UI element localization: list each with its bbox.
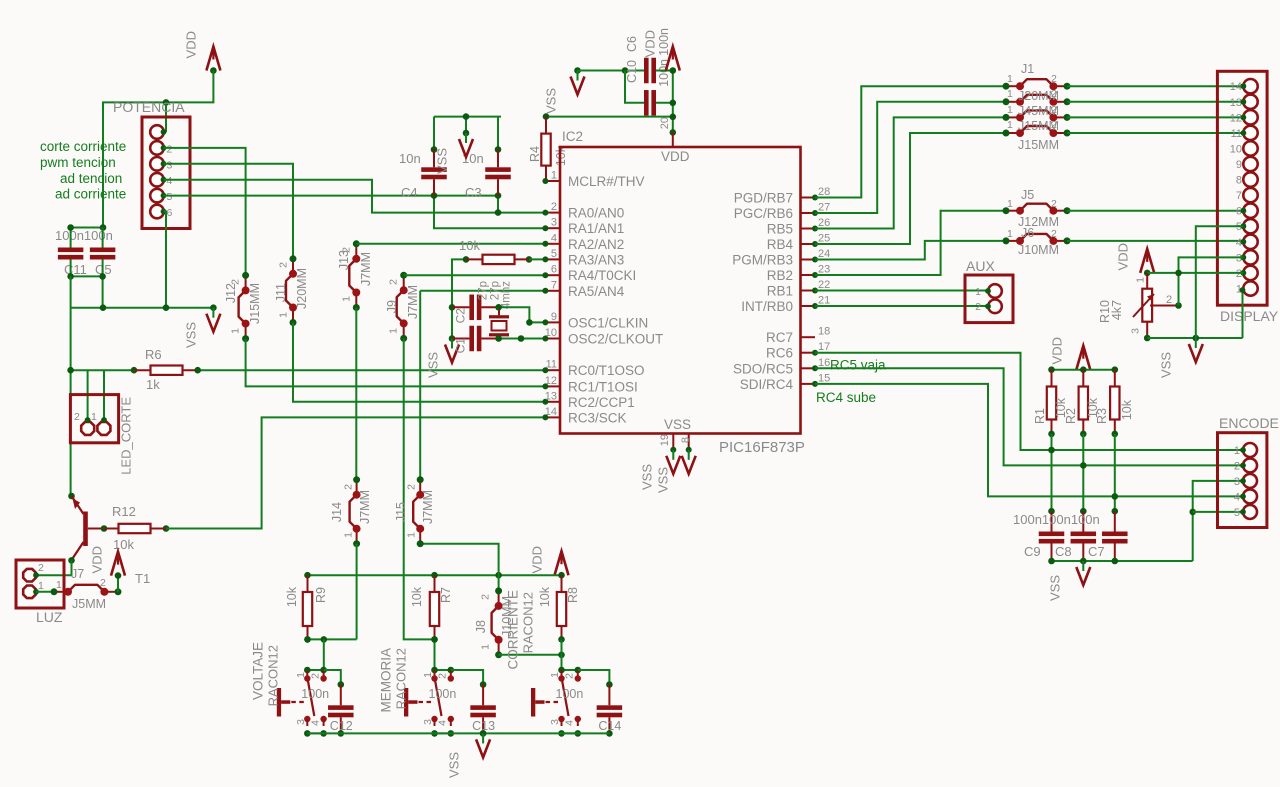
svg-text:6: 6 [551, 264, 557, 276]
wire VSS to C10 [578, 70, 645, 72]
wire R6 to RC0/T1OSO (pin11) [198, 369, 546, 371]
svg-text:1: 1 [295, 672, 307, 678]
svg-text:2: 2 [1051, 104, 1057, 116]
wire POTENCIA pin3 to J11 [164, 164, 294, 259]
wire POTENCIA pin2 to J12 [164, 148, 246, 276]
svg-text:1: 1 [388, 328, 400, 334]
svg-text:2: 2 [1051, 198, 1057, 210]
wire gnd up to ENCODER pin3/pin5 [1193, 481, 1243, 561]
wire J13 down to J14 [355, 308, 357, 480]
svg-text:VSS: VSS [639, 464, 654, 490]
svg-text:100n: 100n [301, 687, 329, 701]
svg-text:10k: 10k [1120, 399, 1134, 420]
svg-text:1: 1 [230, 328, 242, 334]
svg-text:25: 25 [818, 233, 830, 245]
wire C3 bottom to RA0 row [497, 196, 499, 213]
IC IC2 PIC16F873P microcontroller [560, 147, 801, 434]
svg-text:VSS: VSS [183, 322, 198, 348]
wire RA5 (pin7) to J15 [420, 290, 545, 292]
jumper J9 J7MM [403, 275, 405, 290]
svg-text:17: 17 [818, 341, 830, 353]
wire R10 pin3 / VSS to DISPLAY pin1 [1144, 335, 1151, 342]
pin 20 VDD [672, 132, 674, 147]
svg-text:1: 1 [278, 312, 290, 318]
power VDD symbol (R10) [1140, 249, 1154, 273]
pin 27 PGC/RB6 [801, 212, 816, 214]
wire RB4 (pin25) to J4 [815, 133, 1006, 244]
svg-text:6: 6 [167, 207, 173, 219]
svg-text:C10: C10 [625, 60, 639, 83]
svg-text:R7: R7 [439, 587, 453, 603]
svg-text:1k: 1k [146, 377, 160, 392]
wire VSS bus (left) [71, 307, 214, 309]
svg-text:10k: 10k [538, 586, 552, 607]
svg-text:PGC/RB6: PGC/RB6 [734, 206, 793, 221]
svg-text:J15: J15 [394, 502, 408, 522]
svg-text:RB1: RB1 [767, 284, 793, 299]
wire 10k to RA3 (pin5) [529, 258, 545, 260]
wire RB2 (pin23) to J5 [815, 211, 1006, 275]
svg-text:100n100n100n: 100n100n100n [1013, 512, 1100, 527]
svg-text:2: 2 [341, 247, 353, 253]
capacitor C10 100n [644, 58, 649, 84]
svg-text:7: 7 [551, 279, 557, 291]
power VSS symbol (left bus) [212, 308, 214, 318]
capacitor C14 100n [578, 670, 610, 685]
switch CORRIENTE RACON12 [562, 669, 578, 671]
node C4 bottom junction [431, 192, 438, 199]
wire RB5 (pin26) to J3 [815, 117, 1006, 228]
svg-text:4mhz: 4mhz [500, 281, 512, 309]
wire rail to switch pins [323, 639, 325, 670]
svg-text:IC2: IC2 [562, 129, 583, 144]
svg-text:10k: 10k [459, 238, 480, 253]
svg-text:7: 7 [1236, 190, 1242, 202]
svg-text:8: 8 [680, 437, 692, 443]
svg-text:14: 14 [1230, 81, 1242, 93]
svg-text:SDI/RC4: SDI/RC4 [740, 377, 794, 392]
wire J15 bottom to J8 [420, 544, 498, 591]
svg-text:J14: J14 [330, 502, 344, 522]
svg-text:J12: J12 [224, 283, 238, 303]
power VSS symbol (caps) [1082, 561, 1084, 571]
wire CORRIENTE rail to switch pins [561, 639, 563, 670]
wire C11/C5 bottoms to VSS bus [71, 260, 103, 308]
svg-text:VDD: VDD [183, 31, 198, 58]
svg-text:1: 1 [1007, 119, 1013, 131]
svg-text:3: 3 [167, 159, 173, 171]
svg-text:2: 2 [343, 484, 355, 490]
jumper J3 J15MM [1006, 116, 1020, 118]
svg-text:AUX: AUX [966, 258, 995, 274]
svg-text:R4: R4 [528, 146, 542, 162]
svg-text:24: 24 [818, 248, 830, 260]
wire PGD/RB7 (pin28) to J1 [815, 86, 1006, 197]
svg-text:1: 1 [341, 296, 353, 302]
svg-text:C9: C9 [1024, 544, 1041, 559]
svg-text:4: 4 [437, 720, 449, 726]
transistor T1 [68, 493, 75, 500]
svg-text:2: 2 [1051, 73, 1057, 85]
connector LED_CORTE [87, 370, 89, 420]
svg-text:MCLR#/THV: MCLR#/THV [568, 174, 645, 189]
jumper J2 J20MM [1006, 101, 1020, 103]
pin 14 RC3/SCK [545, 416, 560, 418]
svg-text:1: 1 [38, 580, 44, 592]
capacitor C2 27p [452, 306, 499, 308]
jumper J13 J7MM [355, 244, 357, 259]
svg-text:J7MM: J7MM [421, 490, 435, 524]
svg-text:R9: R9 [314, 587, 328, 603]
svg-text:2: 2 [278, 262, 290, 268]
svg-text:1: 1 [975, 286, 981, 298]
svg-text:3: 3 [551, 217, 557, 229]
svg-text:14: 14 [545, 406, 557, 418]
svg-text:RA4/T0CKI: RA4/T0CKI [568, 268, 636, 283]
jumper J4 J15MM [1006, 132, 1020, 134]
svg-text:J5: J5 [1021, 188, 1034, 202]
jumper J12 J15MM [245, 275, 247, 290]
pin 19 VSS [672, 434, 674, 450]
svg-text:R3: R3 [1095, 408, 1109, 424]
svg-text:ad tencion: ad tencion [60, 171, 122, 186]
svg-text:C8: C8 [1055, 544, 1072, 559]
svg-text:C3: C3 [465, 185, 482, 200]
wire POTENCIA pin6 down to VSS bus [164, 212, 167, 308]
wire J7 to VDD [117, 576, 119, 592]
svg-text:10: 10 [1230, 143, 1242, 155]
svg-text:VOLTAJE: VOLTAJE [251, 642, 266, 700]
svg-text:10n: 10n [399, 151, 421, 166]
svg-text:19: 19 [659, 434, 671, 446]
svg-text:2: 2 [100, 577, 106, 589]
jumper J5 J12MM [1006, 210, 1020, 212]
resistor R8 10k [561, 575, 563, 639]
wire OSC2 (pin10) [499, 338, 546, 340]
svg-text:T1: T1 [135, 571, 150, 586]
svg-text:8: 8 [1236, 175, 1242, 187]
power VSS symbol (display) [1195, 338, 1197, 348]
wire VDD rail [1052, 369, 1115, 371]
svg-text:INT/RB0: INT/RB0 [741, 299, 793, 314]
power VDD symbol (LUZ) [111, 552, 125, 576]
wire J2 to DISPLAY pin13 [1067, 101, 1243, 103]
svg-text:J7MM: J7MM [358, 490, 372, 524]
capacitor C8 100n [1071, 532, 1097, 537]
svg-text:RA2/AN2: RA2/AN2 [568, 237, 624, 252]
svg-text:2: 2 [38, 562, 44, 574]
svg-text:4: 4 [564, 720, 576, 726]
wire INT/RB0 (pin21) to AUX pin2 [815, 305, 988, 307]
potentiometer R10 4k7 [1146, 273, 1148, 336]
svg-text:J15MM: J15MM [248, 283, 262, 324]
svg-text:RB2: RB2 [767, 268, 793, 283]
pin 21 INT/RB0 [801, 305, 816, 307]
svg-text:SDO/RC5: SDO/RC5 [733, 361, 793, 376]
wire switches bottom VSS rail [307, 732, 609, 734]
svg-text:2: 2 [309, 673, 321, 679]
svg-text:MEMORIA: MEMORIA [379, 648, 394, 713]
svg-text:21: 21 [818, 295, 830, 307]
capacitor C5 100n [102, 228, 104, 248]
svg-text:10: 10 [545, 327, 557, 339]
svg-text:100n: 100n [657, 28, 671, 56]
svg-text:9: 9 [1236, 159, 1242, 171]
wire R12 to RC3/SCK (pin14) [166, 417, 545, 528]
power VSS symbol (crystal) [451, 339, 453, 349]
wire caps to VDD / pin20 [656, 70, 673, 72]
svg-text:VDD: VDD [661, 149, 690, 164]
jumper J15 J7MM [419, 480, 421, 495]
svg-text:2: 2 [1166, 294, 1172, 306]
switch MEMORIA RACON12 [435, 669, 451, 671]
svg-text:11: 11 [1231, 128, 1242, 140]
capacitor C1 27p [452, 338, 499, 340]
svg-text:2: 2 [480, 594, 492, 600]
svg-text:2: 2 [437, 673, 449, 679]
svg-text:RC6: RC6 [766, 346, 793, 361]
svg-text:10k: 10k [285, 586, 299, 607]
svg-text:VSS: VSS [434, 148, 449, 174]
svg-text:VDD: VDD [1115, 243, 1130, 270]
svg-text:1: 1 [1007, 104, 1013, 116]
svg-text:J7MM: J7MM [406, 285, 420, 319]
svg-text:VSS: VSS [446, 752, 461, 778]
svg-text:100n: 100n [556, 687, 584, 701]
capacitor C13 100n [451, 670, 483, 685]
svg-text:4k7: 4k7 [1110, 300, 1124, 320]
wire J14 bottom to VOLTAJE rail [356, 544, 358, 640]
svg-text:2: 2 [167, 143, 173, 155]
svg-text:J15MM: J15MM [1018, 138, 1059, 152]
jumper J6 J10MM [1006, 240, 1020, 242]
svg-text:C7: C7 [1088, 544, 1105, 559]
svg-text:PIC16F873P: PIC16F873P [719, 439, 805, 456]
svg-text:ENCODER: ENCODER [1219, 415, 1280, 431]
svg-text:RA1/AN1: RA1/AN1 [568, 221, 624, 236]
svg-text:3: 3 [295, 719, 307, 725]
svg-text:RA3/AN3: RA3/AN3 [568, 252, 624, 267]
wire J3 to DISPLAY pin12 [1067, 116, 1243, 118]
pin 1 MCLR#/THV [545, 180, 560, 182]
pin 28 PGD/RB7 [801, 197, 816, 199]
jumper J8 J10MM [498, 591, 500, 606]
pin 6 RA4/T0CKI [545, 274, 560, 276]
svg-text:9: 9 [551, 311, 557, 323]
wire RA2 (pin4) to J13 [356, 243, 545, 245]
svg-text:18: 18 [818, 326, 830, 338]
node VSS junction [1193, 335, 1200, 342]
wire POTENCIA pin4 to RA0 (pin2) [164, 180, 546, 213]
pin 2 RA0/AN0 [545, 212, 560, 214]
pin 25 RB4 [801, 243, 816, 245]
svg-text:C4: C4 [401, 185, 418, 200]
svg-text:1: 1 [480, 644, 492, 650]
svg-text:2: 2 [74, 411, 80, 423]
jumper J1 [1006, 85, 1020, 87]
svg-text:3: 3 [422, 719, 434, 725]
resistor R4 10k [546, 116, 673, 118]
svg-text:RC1/T1OSI: RC1/T1OSI [568, 379, 638, 394]
wire T1 emitter to LUZ pin2 [68, 557, 75, 564]
svg-text:RC2/CCP1: RC2/CCP1 [568, 395, 635, 410]
wire RA4 (pin6) to J9 [404, 274, 546, 276]
crystal Q1 4mhz [489, 315, 509, 318]
svg-text:28: 28 [818, 186, 830, 198]
resistor R1 10k [1051, 370, 1053, 434]
capacitor C3 10n [497, 117, 499, 150]
wire PGC/RB6 (pin27) to J2 [815, 102, 1006, 213]
svg-text:1: 1 [343, 532, 355, 538]
svg-text:VSS: VSS [1158, 352, 1173, 378]
power VSS symbol (C4/C3) [465, 117, 467, 133]
svg-text:15: 15 [818, 372, 830, 384]
wire POTENCIA pin1 up to VDD [165, 102, 167, 132]
svg-text:27: 27 [818, 202, 830, 214]
resistor R12 10k [101, 525, 108, 532]
svg-text:4: 4 [167, 175, 173, 187]
power VSS symbols (pins 19/8) [672, 450, 674, 460]
svg-text:R8: R8 [566, 587, 580, 603]
svg-text:J20MM: J20MM [295, 268, 309, 309]
wire R3 to encoder row [1114, 434, 1116, 511]
pin 3 RA1/AN1 [545, 227, 560, 229]
svg-text:R2: R2 [1064, 408, 1078, 424]
svg-text:1: 1 [1007, 88, 1013, 100]
svg-text:1: 1 [1007, 73, 1013, 85]
svg-text:J7MM: J7MM [359, 252, 373, 286]
svg-text:5: 5 [551, 248, 557, 260]
svg-text:2: 2 [564, 673, 576, 679]
capacitor C6 100n [644, 90, 649, 116]
svg-text:J8: J8 [474, 620, 488, 633]
wire VSS to DISPLAY pin5 [1196, 226, 1244, 338]
pin 4 RA2/AN2 [545, 243, 560, 245]
svg-text:2: 2 [1234, 460, 1240, 472]
power VDD symbol (pin20) [666, 47, 680, 71]
pin 12 RC1/T1OSI [545, 385, 560, 387]
svg-text:27p: 27p [477, 281, 489, 300]
wire POTENCIA pin5 to C4 node and RA1 (pin3) [164, 195, 499, 197]
svg-text:PGM/RB3: PGM/RB3 [732, 253, 793, 268]
wire J12 to RC1 (pin12) [246, 339, 546, 387]
wire J4 to DISPLAY pin11 [1067, 132, 1243, 134]
power VDD symbol (top left) [206, 47, 220, 71]
wire PGM/RB3 (pin24) to J6 [815, 241, 1006, 260]
svg-text:1: 1 [91, 411, 97, 423]
resistor R2 10k [1082, 370, 1084, 434]
svg-text:J10MM: J10MM [1018, 243, 1059, 257]
resistor R6 1k [71, 369, 134, 371]
svg-text:LUZ: LUZ [36, 609, 63, 625]
svg-text:11: 11 [546, 359, 557, 371]
resistor R9 10k [307, 575, 309, 639]
connector LUZ [16, 560, 64, 608]
svg-text:LED_CORTE: LED_CORTE [118, 397, 133, 475]
svg-text:1: 1 [406, 532, 418, 538]
svg-text:1: 1 [1007, 198, 1013, 210]
svg-text:1: 1 [422, 672, 434, 678]
pin 5 RA3/AN3 [545, 258, 560, 260]
svg-text:RACON12: RACON12 [265, 645, 280, 706]
svg-text:22: 22 [818, 279, 830, 291]
svg-text:1: 1 [56, 579, 62, 591]
svg-text:corte corriente: corte corriente [40, 139, 126, 154]
wire VDD rail to POTENCIA pin1 and C11/C5 [103, 71, 213, 228]
wire link to C6 [625, 71, 644, 103]
svg-text:3: 3 [1234, 476, 1240, 488]
svg-text:RB4: RB4 [767, 237, 794, 252]
svg-text:2: 2 [975, 301, 981, 313]
pin 17 RC6 [801, 352, 816, 354]
svg-text:5: 5 [1234, 507, 1240, 519]
svg-text:2: 2 [1051, 88, 1057, 100]
wire SDO/RC5 (pin16) to ENCODER pin2 [815, 368, 1243, 465]
svg-text:C2: C2 [454, 308, 468, 324]
wire J1 to DISPLAY pin14 [1067, 85, 1243, 87]
resistor 10k (RA3) [452, 259, 466, 307]
svg-text:VSS: VSS [664, 417, 691, 432]
svg-text:23: 23 [818, 264, 830, 276]
svg-text:C11: C11 [64, 262, 87, 277]
svg-text:20: 20 [659, 117, 671, 129]
wire VSS vertical (crystal gnd) [451, 307, 453, 338]
pin 16 SDO/RC5 [801, 367, 816, 369]
wire OSC1 (pin9) [499, 307, 546, 322]
switch VOLTAJE RACON12 [307, 669, 323, 671]
wire J9 down to MEMORIA rail [404, 338, 435, 639]
wire J6 to DISPLAY pin4 [1067, 240, 1243, 242]
svg-text:R6: R6 [145, 347, 162, 362]
resistor R7 10k [434, 575, 436, 639]
svg-text:R12: R12 [112, 504, 136, 519]
svg-text:2: 2 [551, 201, 557, 213]
svg-text:13: 13 [1230, 97, 1242, 109]
wire MEMORIA rail to switch pins [434, 639, 436, 670]
svg-text:J5MM: J5MM [72, 597, 106, 611]
resistor R3 10k [1114, 370, 1116, 434]
svg-text:3: 3 [1130, 328, 1142, 334]
jumper J14 J7MM [356, 480, 358, 495]
svg-text:RB5: RB5 [767, 222, 793, 237]
svg-text:1: 1 [1135, 277, 1147, 283]
svg-text:12: 12 [1230, 112, 1242, 124]
svg-text:J1: J1 [1021, 62, 1034, 76]
svg-text:2: 2 [1051, 228, 1057, 240]
wire R2 to encoder row [1082, 434, 1084, 511]
svg-text:10k: 10k [410, 586, 424, 607]
svg-text:5: 5 [167, 191, 173, 203]
svg-text:VSS: VSS [655, 467, 670, 493]
svg-text:4: 4 [1234, 491, 1240, 503]
pin 18 RC7 [801, 336, 816, 338]
svg-text:2: 2 [406, 484, 418, 490]
pin 10 OSC2/CLKOUT [545, 338, 560, 340]
svg-text:RC4 sube: RC4 sube [816, 390, 876, 405]
wire R1 to encoder row [1051, 434, 1053, 511]
wire VOLTAJE rail [308, 638, 357, 640]
pin 7 RA5/AN4 [545, 290, 560, 292]
wire SDI/RC4 (pin15) to ENCODER pin4 [815, 384, 1243, 497]
svg-text:RA0/AN0: RA0/AN0 [568, 206, 624, 221]
svg-text:ad corriente: ad corriente [55, 187, 126, 202]
svg-text:PGD/RB7: PGD/RB7 [734, 191, 793, 206]
wire R10 wiper to DISPLAY pin3 [1175, 302, 1182, 309]
power VDD symbol (pull-ups) [1076, 346, 1090, 370]
svg-text:1: 1 [1007, 228, 1013, 240]
svg-text:VDD: VDD [642, 30, 657, 57]
svg-text:RC3/SCK: RC3/SCK [568, 410, 627, 425]
